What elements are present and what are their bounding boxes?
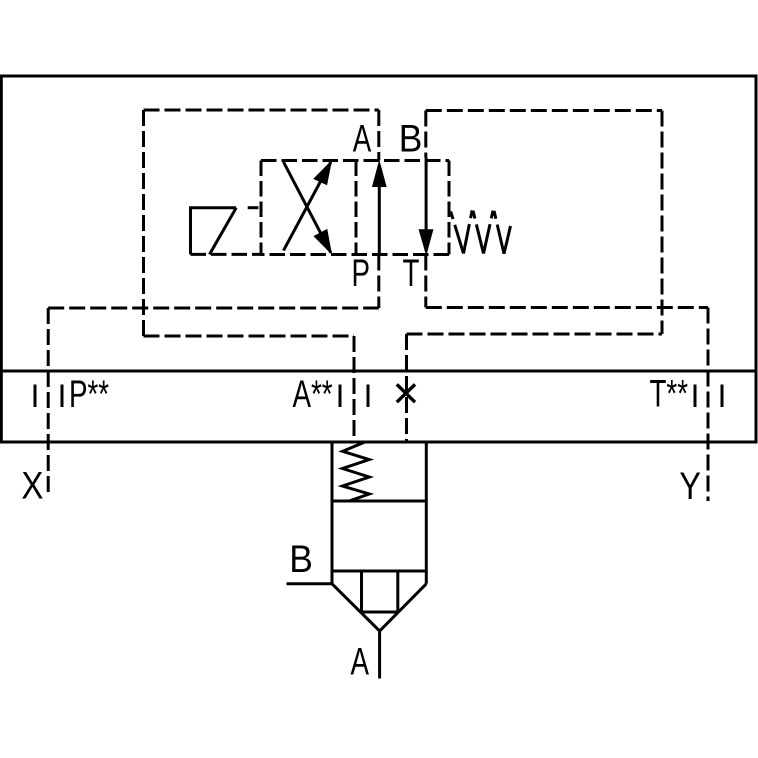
face tick T right (721, 385, 724, 408)
svg-text:B: B (399, 118, 423, 161)
svg-text:X: X (21, 465, 43, 508)
solenoid bottom dashed edge (191, 253, 263, 256)
cartridge poppet valve outline (332, 442, 426, 584)
port line A (cartridge) (378, 631, 381, 679)
pilot line X vertical (47, 308, 50, 497)
pilot line A vertical to cartridge (353, 336, 356, 442)
solenoid a (191, 208, 237, 255)
port line B (cartridge) (287, 582, 333, 585)
cartridge spring (343, 442, 370, 501)
pilot line P below valve (377, 255, 380, 309)
svg-text:T**: T** (650, 373, 689, 416)
svg-text:P: P (352, 252, 370, 295)
pilot line A horizontal (144, 335, 355, 338)
pilot line Y vertical (707, 308, 710, 502)
face tick A right (367, 385, 370, 408)
face tick P left (34, 385, 37, 408)
face tick P right (61, 385, 64, 408)
pilot line Y horizontal (426, 306, 708, 309)
solenoid top connector (248, 206, 259, 209)
valve return spring (dashed zigzag) (450, 209, 511, 254)
blocked branch to cartridge top (405, 334, 408, 442)
cartridge seat inner rect (362, 571, 398, 612)
right dashed enclosure (407, 111, 663, 335)
crossed arrow P-to-B (284, 162, 331, 253)
mounting face line (1, 370, 756, 373)
svg-text:P**: P** (69, 373, 109, 416)
svg-text:Y: Y (679, 465, 701, 508)
svg-text:A**: A** (293, 373, 333, 416)
svg-text:A: A (353, 118, 372, 161)
flow arrow P-to-A (up) (378, 165, 381, 255)
face tick A left (339, 385, 342, 408)
svg-text:T: T (403, 252, 420, 295)
closed port X mark (397, 384, 415, 402)
svg-text:B: B (289, 538, 313, 581)
pilot line X horizontal (48, 307, 379, 310)
pilot line T below valve (424, 255, 427, 308)
flow arrow B-to-T (down) (425, 158, 428, 252)
cover block outline (1, 76, 756, 442)
cartridge poppet cone (332, 584, 426, 631)
left dashed enclosure (144, 110, 379, 336)
face tick T left (694, 385, 697, 408)
crossed arrow A-to-T (284, 162, 331, 251)
pilot line B above valve (424, 111, 427, 158)
pilot valve body (4/2 directional, dashed) (261, 161, 449, 255)
svg-text:A: A (351, 641, 370, 684)
